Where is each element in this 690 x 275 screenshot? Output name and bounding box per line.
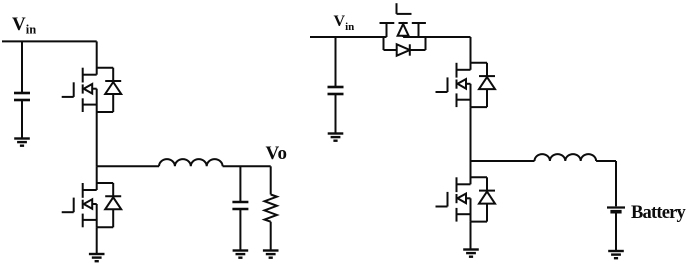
wire: L1 to output: [223, 165, 271, 167]
wire: left Vin top rail: [2, 40, 97, 42]
transistor Q3 (reverse-blocking input switch) (MOSFET rotated, drain left / source right, gate on top): [380, 3, 426, 37]
wire: [239, 209, 241, 250]
capacitor C1 (input): [14, 93, 30, 100]
ground of R1: [263, 251, 279, 258]
ground of C2: [233, 251, 249, 258]
inductor L2: [535, 154, 597, 161]
wire: Q1 source to switch node: [96, 112, 98, 166]
wire: L2 to battery branch: [596, 160, 616, 162]
wire: [21, 100, 23, 138]
wire: Q2 source to ground: [96, 227, 98, 253]
wire: Q4 source to switch node: [470, 107, 472, 161]
wire: Q5 source to ground: [470, 222, 472, 249]
body diode D1 of Q1 (high-side): [97, 68, 122, 112]
body diode D3 of Q3 (reverse-blocking input switch): [384, 37, 426, 56]
wire: [270, 222, 272, 251]
ground of C3: [328, 134, 344, 141]
wire: switch node down to Q5 drain: [470, 161, 472, 184]
node: left switch node / output line: [97, 165, 159, 167]
svg-text:Battery: Battery: [631, 203, 687, 223]
ground of BT1: [608, 251, 624, 258]
wire: battery to ground: [615, 213, 617, 250]
node: right switch node line: [471, 160, 535, 162]
wire: right input cap branch: [335, 37, 337, 87]
transistor Q5 (low-side synchronous rectifier) (N-MOSFET, drain top / source bottom): [436, 177, 471, 221]
wire: right Vin rail to Q3 drain: [310, 36, 387, 38]
battery BT1: [607, 208, 625, 212]
transistor Q4 (high-side) (N-MOSFET, drain top / source bottom): [436, 63, 471, 107]
inductor L1: [159, 159, 223, 166]
ground of Q5: [463, 250, 479, 257]
wire: drain of Q1 from Vin rail: [96, 41, 98, 74]
wire: output cap branch: [239, 166, 241, 202]
wire: down to Q4 drain: [470, 37, 472, 70]
body diode D2 of Q2 (low-side synchronous rectifier): [97, 183, 122, 227]
transistor Q2 (low-side synchronous rectifier) (N-MOSFET, drain top / source bottom): [62, 183, 97, 227]
wire: down to load resistor: [270, 166, 272, 194]
body diode D5 of Q5 (low-side synchronous rectifier): [471, 177, 496, 221]
wire: left input cap branch: [21, 41, 23, 93]
svg-text:Vo: Vo: [266, 143, 287, 164]
ground of C1: [14, 139, 30, 146]
wire: Q3 source rail to corner: [426, 36, 471, 38]
ground of Q2: [89, 254, 105, 261]
capacitor C2 (output): [232, 202, 248, 209]
body diode D4 of Q4 (high-side): [471, 63, 496, 107]
resistor R1 (load): [265, 195, 277, 222]
capacitor C3 (input): [328, 87, 344, 94]
transistor Q1 (high-side) (N-MOSFET, drain top / source bottom): [62, 68, 97, 112]
wire: [335, 94, 337, 133]
wire: switch node down to Q2 drain: [96, 166, 98, 190]
wire: down to battery: [615, 161, 617, 206]
